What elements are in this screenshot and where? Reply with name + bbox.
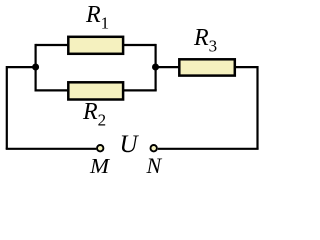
junction node A (left) bbox=[32, 64, 39, 71]
label R2 bbox=[83, 100, 106, 128]
resistor R1 bbox=[68, 37, 123, 54]
wire left parallel vertical bbox=[34, 44, 36, 91]
wire node A to left rail bbox=[7, 66, 36, 68]
wire bottom left to terminal M bbox=[6, 148, 97, 150]
wire top branch left segment bbox=[36, 44, 68, 46]
wire right parallel vertical bbox=[155, 44, 157, 91]
wire right rail vertical bbox=[256, 66, 258, 149]
junction node B (right) bbox=[152, 64, 159, 71]
label N bbox=[147, 155, 162, 177]
label R1 bbox=[86, 3, 109, 31]
wire bottom branch right segment bbox=[124, 89, 157, 91]
terminal M circle bbox=[97, 145, 103, 151]
label U bbox=[120, 132, 138, 157]
wire top branch right segment bbox=[124, 44, 156, 46]
resistor R2 bbox=[68, 82, 123, 99]
label R3 bbox=[194, 26, 217, 54]
wire terminal N to bottom right bbox=[158, 148, 259, 150]
wire R3 to right rail bbox=[235, 66, 258, 68]
wire node B to R3 bbox=[156, 66, 179, 68]
resistor R3 bbox=[179, 59, 235, 75]
wire left rail vertical bbox=[6, 66, 8, 149]
terminal N circle bbox=[151, 145, 157, 151]
label M bbox=[90, 156, 109, 177]
wire bottom branch left segment bbox=[35, 89, 69, 91]
